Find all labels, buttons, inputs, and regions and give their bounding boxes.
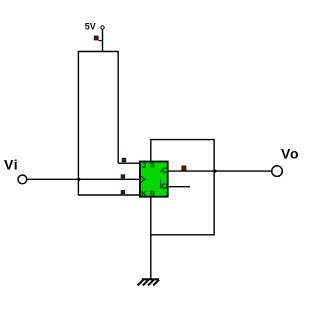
svg-text:R: R [150,189,156,198]
svg-text:K: K [141,189,147,198]
junction at left rail [79,177,82,181]
pin marker (red square) at K [121,190,125,193]
junction at loop right edge [214,169,218,173]
wire from 5V terminal down [102,29,104,52]
wire: S input loop (top) [151,140,214,235]
JK flip-flop U1 body [140,162,168,197]
svg-text:J: J [142,161,146,170]
pin marker (red square) at clock [121,175,125,178]
terminal Vo [272,166,283,177]
svg-text:Vo: Vo [281,146,299,162]
terminal Vi [18,175,27,184]
pin marker (red square) at Q [182,166,186,171]
wire: Vi to clock input [27,178,140,180]
wire: J input [118,162,139,164]
wire: R output down to ground [150,197,152,279]
wire: Q output to Vo [168,170,272,172]
clock triangle [141,176,145,183]
wire: top rail rectangle (5V to J and down left side) [78,52,139,196]
svg-text:5V: 5V [85,21,96,31]
ground [138,279,159,285]
pin marker (red square) at 5V wire [94,36,102,41]
pin marker (red square) at J [122,158,126,162]
svg-text:Q: Q [160,167,169,173]
svg-text:Vi: Vi [4,156,18,172]
svg-text:S: S [150,161,155,170]
wire: Qbar stub [168,186,190,188]
terminal 5V [101,26,104,29]
